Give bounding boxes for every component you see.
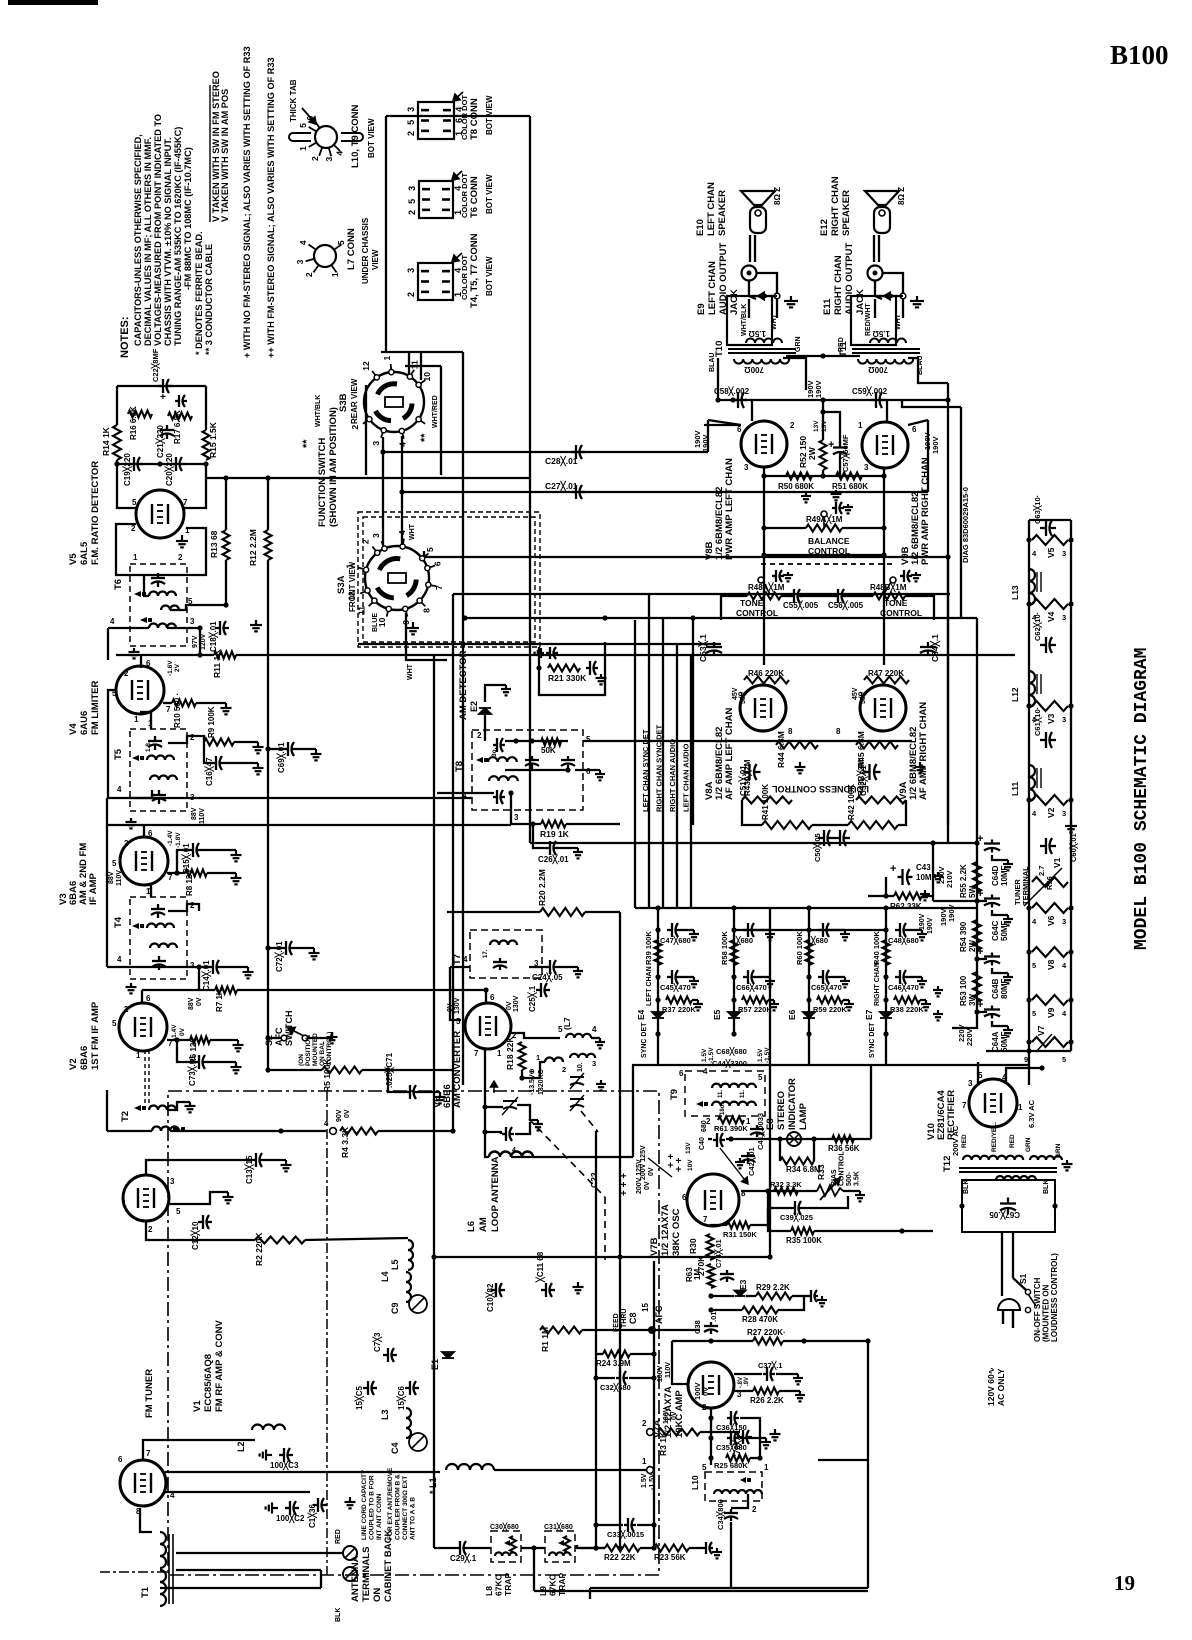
T9 pin5 bbox=[758, 1073, 763, 1082]
svg-text:-13.5V⊕: -13.5V⊕ bbox=[529, 1068, 536, 1095]
svg-text:C43: C43 bbox=[916, 863, 931, 872]
potentiometer R48A 1M tone L bbox=[747, 593, 781, 600]
svg-text:V7B: V7B bbox=[649, 1237, 660, 1256]
label V10 EZ81/6CA4 RECTIFIER bbox=[926, 1090, 957, 1140]
label GRN b bbox=[1055, 1143, 1062, 1158]
label R50 680K bbox=[778, 482, 814, 491]
svg-text:4: 4 bbox=[592, 1025, 597, 1034]
label T12 bbox=[942, 1156, 953, 1172]
svg-text:AFC: AFC bbox=[654, 1305, 664, 1324]
col d2 bbox=[883, 974, 888, 979]
svg-text:T4, T5, T7 CONN: T4, T5, T7 CONN bbox=[469, 233, 480, 308]
svg-text:C64A: C64A bbox=[991, 1031, 1000, 1052]
label 190V left bbox=[693, 430, 702, 448]
label R11 1K bbox=[212, 649, 222, 678]
svg-text:110V: 110V bbox=[116, 870, 123, 886]
label L7 bbox=[562, 1017, 572, 1030]
T6 secondary coil bbox=[161, 606, 179, 611]
svg-text:2: 2 bbox=[752, 1505, 757, 1514]
wire x708 bbox=[707, 420, 709, 452]
switch V9 wafer bbox=[1032, 995, 1068, 1005]
resistor R29 2.2K bbox=[756, 1293, 792, 1300]
label 100V 0V bbox=[693, 1382, 702, 1400]
wire y1460 bbox=[818, 1459, 868, 1461]
svg-text:C59╳.002: C59╳.002 bbox=[852, 386, 888, 397]
label C11 68 bbox=[535, 1251, 546, 1283]
resistor R50 680K bbox=[786, 473, 812, 480]
cap tone R bbox=[900, 570, 912, 582]
svg-text:-FM 88MC TO 108MC (IF-10.7MC): -FM 88MC TO 108MC (IF-10.7MC) bbox=[183, 147, 193, 290]
svg-text:6AL5: 6AL5 bbox=[79, 541, 90, 565]
svg-text:V TAKEN WITH SW IN AM POS: V TAKEN WITH SW IN AM POS bbox=[220, 89, 230, 222]
note + no fm-stereo bbox=[242, 46, 252, 358]
svg-text:1.5V: 1.5V bbox=[701, 1048, 708, 1062]
tube V3 6BA6 AM 2nd FM IF bbox=[120, 837, 168, 885]
trap L9 box bbox=[545, 1531, 575, 1562]
label 45V 50V L bbox=[732, 687, 739, 700]
bus y990 right bbox=[237, 989, 486, 991]
resistor R14 1K bbox=[113, 425, 121, 460]
label UNDER CHASSIS VIEW bbox=[361, 217, 370, 284]
wire V2 pin6 bbox=[141, 990, 143, 1003]
coil L10 box bbox=[705, 1472, 762, 1501]
svg-text:BOT VIEW: BOT VIEW bbox=[485, 174, 494, 214]
T7 cap bbox=[493, 958, 507, 970]
label L12 bbox=[1010, 687, 1020, 702]
svg-text:R12 2.2M: R12 2.2M bbox=[248, 529, 258, 566]
svg-text:C53╳.1: C53╳.1 bbox=[697, 634, 709, 662]
svg-text:2: 2 bbox=[190, 901, 195, 910]
svg-text:2: 2 bbox=[124, 669, 129, 678]
svg-text:BOT VIEW: BOT VIEW bbox=[367, 118, 376, 158]
core bbox=[728, 349, 796, 353]
svg-text:V8: V8 bbox=[1046, 959, 1056, 970]
svg-text:2: 2 bbox=[642, 1419, 647, 1428]
svg-text:C21╳220: C21╳220 bbox=[155, 425, 166, 458]
svg-text:12: 12 bbox=[361, 361, 371, 371]
svg-text:R23 56K: R23 56K bbox=[654, 1553, 686, 1562]
capacitor C24 .05 bbox=[545, 960, 559, 974]
wire R9 gnd bbox=[234, 741, 258, 743]
ground V2 grid bbox=[126, 983, 137, 993]
thick tab arrow bbox=[302, 108, 316, 124]
resistor R47 220K bbox=[864, 677, 909, 684]
j R23 bbox=[651, 1545, 656, 1550]
lg bbox=[927, 917, 934, 934]
resistor R25 680K bbox=[726, 1455, 750, 1462]
pin V9A 8 bbox=[836, 727, 841, 736]
junction R12 top bbox=[265, 475, 270, 480]
label C68 680 bbox=[716, 1046, 747, 1057]
transformer T7 box bbox=[470, 930, 542, 978]
gnd col2 bbox=[765, 977, 775, 987]
diode col bbox=[652, 1012, 664, 1018]
scan artifact top bar bbox=[8, 0, 98, 5]
svg-text:TRAP: TRAP bbox=[557, 1573, 567, 1596]
label 1820KC bbox=[538, 1069, 545, 1095]
gnd C42 bbox=[735, 1158, 745, 1168]
resistor R9 100K bbox=[204, 739, 234, 746]
svg-text:4: 4 bbox=[334, 151, 344, 156]
label L8 67KC TRAP bbox=[484, 1573, 513, 1596]
label -1.5V a bbox=[708, 1047, 715, 1063]
antenna terminal A bbox=[343, 1546, 357, 1560]
bottom bus step bbox=[589, 1588, 591, 1599]
svg-text:7: 7 bbox=[146, 1449, 151, 1458]
gnd R21 above bbox=[535, 648, 544, 658]
svg-text:5: 5 bbox=[188, 597, 193, 606]
svg-text:V4: V4 bbox=[1046, 611, 1056, 622]
wire R8 gnd bbox=[207, 872, 236, 874]
wire tone rail L bbox=[721, 596, 747, 620]
svg-text:FRONT VIEW: FRONT VIEW bbox=[348, 561, 357, 612]
capacitor C15 .01 bbox=[188, 843, 202, 857]
trap L8 res bbox=[510, 1536, 516, 1552]
svg-text:E10: E10 bbox=[695, 219, 706, 236]
svg-text:90V: 90V bbox=[336, 1109, 343, 1122]
ground T2 bbox=[185, 1102, 196, 1112]
label C24 .05 bbox=[532, 972, 563, 983]
T4 pin1 bbox=[148, 887, 153, 896]
label DIAG 83D60029A15-0 bbox=[961, 487, 970, 563]
cap balance bbox=[832, 502, 844, 514]
svg-text:R4 3.3K: R4 3.3K bbox=[340, 1126, 350, 1158]
junction y1131 bbox=[278, 1128, 283, 1133]
trimmer C4 bbox=[409, 1433, 427, 1451]
svg-text:R16 6.8K: R16 6.8K bbox=[129, 406, 138, 440]
svg-text:2W: 2W bbox=[807, 446, 817, 460]
svg-text:7: 7 bbox=[166, 705, 171, 714]
wire R29 right bbox=[792, 1295, 808, 1297]
gnd l1 bbox=[933, 986, 943, 996]
wire y1257 bbox=[434, 1256, 770, 1258]
pin V3 5 bbox=[112, 859, 117, 868]
svg-text:R55 2.2K: R55 2.2K bbox=[959, 864, 968, 898]
resistor R10 560 bbox=[172, 700, 196, 707]
svg-text:R54 390: R54 390 bbox=[959, 921, 968, 952]
svg-text:6BA6: 6BA6 bbox=[79, 1046, 90, 1070]
label R44 6.8M bbox=[776, 731, 786, 768]
svg-text:WHT: WHT bbox=[895, 313, 902, 330]
gnd ecap bbox=[1003, 973, 1013, 983]
svg-text:R29 2.2K: R29 2.2K bbox=[756, 1283, 790, 1292]
tube V7A 19KC amp bbox=[688, 1362, 734, 1408]
junction C14 bbox=[196, 964, 201, 969]
svg-text:BLK: BLK bbox=[963, 1180, 970, 1194]
junction S2 bbox=[265, 1035, 270, 1040]
wire x948 bbox=[947, 383, 949, 843]
svg-text:CONNECT 300Ω EXT: CONNECT 300Ω EXT bbox=[402, 1476, 409, 1540]
svg-text:R43A╳2M: R43A╳2M bbox=[742, 759, 753, 796]
ground C72 bbox=[309, 948, 320, 959]
svg-text:C16╳47: C16╳47 bbox=[204, 757, 215, 786]
wire net drop bbox=[205, 464, 207, 478]
svg-text:+: + bbox=[160, 392, 166, 403]
switch arrow bbox=[884, 292, 899, 299]
svg-text:C35╳680: C35╳680 bbox=[716, 1442, 747, 1453]
label V9 wafer bbox=[1046, 1007, 1056, 1018]
T12 core bbox=[959, 1168, 1057, 1172]
svg-text:+: + bbox=[977, 888, 983, 900]
svg-text:15: 15 bbox=[641, 1303, 650, 1312]
L10 pin2 bbox=[752, 1505, 757, 1514]
osc wire bbox=[540, 1062, 545, 1078]
label C5 15 bbox=[354, 1386, 365, 1410]
j C36 bbox=[708, 1415, 713, 1420]
trimmer C9 bbox=[409, 1295, 427, 1313]
svg-text:4: 4 bbox=[324, 1119, 329, 1128]
svg-text:C33╳.0015: C33╳.0015 bbox=[607, 1529, 644, 1540]
T8 pin3 bbox=[514, 813, 519, 822]
svg-text:3.5K: 3.5K bbox=[854, 1171, 861, 1186]
wire net bottom bbox=[117, 463, 206, 465]
gnd tone R bbox=[911, 572, 921, 581]
svg-text:COUPLER FROM B &: COUPLER FROM B & bbox=[395, 1474, 402, 1540]
svg-text:6AU6: 6AU6 bbox=[79, 711, 90, 735]
wire V1b k bbox=[165, 1491, 310, 1493]
label R14 1K bbox=[101, 426, 111, 456]
gnd col3 bbox=[844, 1000, 854, 1010]
L11 core bbox=[1037, 768, 1041, 788]
label ON-OFF SWITCH bbox=[1033, 1253, 1059, 1342]
capacitor C51 .01 bbox=[744, 764, 761, 780]
resistor col2 bbox=[666, 997, 692, 1004]
svg-text:3: 3 bbox=[1062, 613, 1066, 622]
junction R13 top bbox=[223, 475, 228, 480]
label BLK a bbox=[963, 1180, 970, 1194]
label VIEW bbox=[371, 249, 380, 270]
svg-text:RED/YEL.: RED/YEL. bbox=[991, 1122, 998, 1152]
pin V4 7 bbox=[166, 705, 171, 714]
tuner box divider bbox=[326, 1091, 328, 1575]
label V6 wafer bbox=[1046, 915, 1056, 926]
wire C57 top bbox=[823, 412, 840, 444]
jack sw wire bbox=[877, 295, 903, 297]
T6 pin2 bbox=[178, 553, 183, 562]
capacitor C26 .01 bbox=[545, 841, 559, 855]
resistor R12 2.2M bbox=[265, 530, 272, 560]
svg-text:R44 6.8M: R44 6.8M bbox=[776, 731, 786, 768]
resistor R15 1.5K bbox=[203, 430, 210, 460]
ground R10 bbox=[221, 703, 232, 714]
balance dashed bbox=[768, 527, 806, 529]
svg-text:2: 2 bbox=[131, 524, 136, 533]
wire BLAU left bbox=[717, 358, 719, 400]
svg-text:T8 CONN: T8 CONN bbox=[469, 98, 480, 140]
labels chan bundle bbox=[641, 724, 691, 812]
label R17 6.8K bbox=[173, 410, 182, 444]
gnd mid amp bbox=[831, 490, 842, 500]
svg-text:RIGHT CHAN AUDIO: RIGHT CHAN AUDIO bbox=[668, 739, 677, 812]
wire trap down bbox=[533, 1548, 535, 1591]
terminal 2 circle bbox=[647, 1429, 654, 1436]
dot e3 bbox=[974, 1009, 979, 1014]
L13 core bbox=[1037, 572, 1041, 592]
gnd col bbox=[765, 930, 775, 940]
ground C16 bbox=[253, 763, 264, 774]
j x654a bbox=[651, 1351, 656, 1356]
wire trap join bbox=[521, 1547, 545, 1549]
potentiometer R43A 2M bbox=[742, 797, 792, 804]
L7 pin5 bbox=[558, 1025, 563, 1034]
wire ecap stub1 bbox=[977, 900, 987, 902]
bus y798 bbox=[107, 797, 472, 799]
label V2 wafer bbox=[1046, 807, 1056, 818]
svg-text:4: 4 bbox=[117, 955, 122, 964]
svg-text:2: 2 bbox=[178, 553, 183, 562]
svg-text:7: 7 bbox=[962, 1101, 967, 1110]
pin V7B 7 bbox=[703, 1215, 708, 1224]
junction V6 top bbox=[483, 987, 488, 992]
wire x933 bbox=[932, 843, 934, 901]
svg-text:V1: V1 bbox=[192, 1400, 203, 1412]
capacitor C62 .10 bbox=[1040, 637, 1056, 653]
svg-text:CONTROL: CONTROL bbox=[736, 608, 778, 618]
note line cord bbox=[361, 1469, 383, 1540]
wire b+ left bbox=[933, 900, 977, 902]
capacitor C70 .01 bbox=[738, 1430, 752, 1444]
bus y400 bbox=[718, 399, 948, 401]
gnd col bbox=[840, 930, 850, 940]
wire C16 gnd bbox=[225, 762, 258, 764]
T8 dot2 bbox=[529, 738, 534, 743]
capacitor C55 .005 bbox=[790, 589, 802, 603]
wire C71 bbox=[388, 1070, 405, 1092]
svg-text:3: 3 bbox=[1062, 549, 1066, 558]
svg-text:2: 2 bbox=[702, 1403, 707, 1412]
svg-text:C57╳50MF: C57╳50MF bbox=[840, 434, 851, 472]
svg-text:RIGHT CHAN: RIGHT CHAN bbox=[833, 255, 844, 315]
svg-text:INDICATOR: INDICATOR bbox=[787, 1078, 798, 1130]
svg-text:1.5Ω: 1.5Ω bbox=[748, 329, 766, 338]
label R25 680K bbox=[714, 1461, 748, 1470]
ground C71 bbox=[435, 1092, 446, 1103]
plus bbox=[977, 999, 983, 1011]
label C41 .0033 bbox=[755, 1113, 766, 1150]
label C67 bbox=[989, 1209, 1020, 1220]
label 110V bbox=[199, 808, 206, 824]
label R23 56K bbox=[654, 1553, 686, 1562]
bus y618 bbox=[462, 617, 977, 619]
V2 grid dashed lead bbox=[145, 1050, 149, 1104]
svg-text:11: 11 bbox=[409, 360, 419, 369]
res label bbox=[720, 931, 729, 965]
svg-text:3W: 3W bbox=[968, 994, 977, 1006]
svg-text:190V: 190V bbox=[931, 436, 940, 454]
color dot arrow bbox=[452, 171, 462, 180]
label FEED THRU bbox=[613, 1313, 620, 1332]
lb bbox=[621, 1309, 628, 1328]
label R47 220K bbox=[868, 669, 904, 678]
trap L8 box bbox=[491, 1531, 521, 1562]
li bbox=[693, 1269, 702, 1280]
chan label bbox=[0, 0, 1, 1]
label FRONT VIEW bbox=[348, 561, 357, 612]
svg-text:10MF: 10MF bbox=[1000, 865, 1009, 886]
tuner rail right x1071 bbox=[1070, 520, 1072, 1051]
svg-text:-1.8V: -1.8V bbox=[175, 832, 182, 848]
osc trimmer1 bbox=[570, 1073, 584, 1089]
T name bbox=[838, 340, 849, 357]
capacitor C12 bbox=[198, 1215, 212, 1229]
resistor R19 1K bbox=[541, 821, 566, 828]
svg-text:4: 4 bbox=[1062, 1009, 1067, 1018]
svg-text:C12╳10: C12╳10 bbox=[190, 1221, 201, 1250]
svg-text:R20 2.2M: R20 2.2M bbox=[537, 869, 547, 906]
pin V7B 8 bbox=[741, 1189, 746, 1198]
switch V5 wafer bbox=[1032, 535, 1068, 545]
pin 3d bbox=[1062, 809, 1066, 818]
svg-text:0V: 0V bbox=[179, 1027, 186, 1036]
svg-text:C31╳680: C31╳680 bbox=[544, 1522, 573, 1531]
tube V6 6BE6 AM converter bbox=[465, 1003, 511, 1049]
resistor R30 270K bbox=[707, 1234, 714, 1260]
transformer T6 box bbox=[130, 564, 187, 646]
L10 pin5 bbox=[702, 1463, 707, 1472]
svg-text:3: 3 bbox=[406, 107, 416, 112]
svg-text:E9: E9 bbox=[696, 303, 707, 315]
svg-text:COLOR DOT: COLOR DOT bbox=[460, 173, 469, 218]
pin 4b bbox=[1032, 613, 1037, 622]
pin V2 5 bbox=[112, 1019, 117, 1028]
svg-text:2: 2 bbox=[477, 731, 482, 740]
wire col4 drop bbox=[885, 1034, 887, 1065]
label C23 bbox=[589, 1172, 599, 1188]
label WHT T10 bbox=[771, 313, 778, 330]
label REDYEL bbox=[991, 1122, 998, 1152]
label GRN a bbox=[1025, 1137, 1032, 1152]
wire R23 r bbox=[689, 1547, 703, 1549]
label -1.8V V3 bbox=[175, 832, 182, 848]
gnd l2 bbox=[933, 1010, 943, 1020]
label V1 wafer bbox=[1052, 857, 1062, 868]
svg-text:50K: 50K bbox=[541, 746, 556, 755]
label V3 wafer bbox=[1046, 713, 1056, 724]
svg-text:T7: T7 bbox=[452, 954, 463, 965]
j C38 bbox=[708, 1338, 713, 1343]
wire tone rail R bbox=[905, 596, 934, 620]
wire C69 left bbox=[268, 748, 283, 750]
tone dashed bbox=[761, 563, 893, 565]
svg-text:WHT/RED: WHT/RED bbox=[432, 395, 439, 428]
pin V1a 2 bbox=[148, 1225, 153, 1234]
gnd T12 bbox=[1062, 1160, 1073, 1170]
osc pin3 bbox=[592, 1059, 596, 1068]
bus y1139b bbox=[726, 1138, 871, 1140]
j x620 bbox=[617, 1254, 622, 1259]
fil box bbox=[962, 1180, 1055, 1232]
jack right down wire bbox=[902, 299, 904, 318]
pin 5b bbox=[1032, 1009, 1036, 1018]
coil L13 bbox=[1029, 569, 1035, 605]
connector L7 CONN bbox=[295, 240, 346, 277]
capacitor C39 .025 bbox=[790, 1201, 804, 1215]
wire V6 pin2 bbox=[511, 1033, 560, 1038]
wire y596 mid3 bbox=[844, 595, 873, 597]
label 88V V3 bbox=[108, 871, 115, 884]
col d2 bbox=[655, 974, 660, 979]
wire E10 leads bbox=[749, 235, 751, 262]
contact circle bbox=[900, 293, 906, 299]
T8 arrows bbox=[476, 757, 488, 763]
gnd C1 bbox=[345, 1497, 356, 1508]
label V5 6AL5 FM RATIO DETECTOR bbox=[68, 461, 101, 565]
rail dot L bbox=[1026, 949, 1031, 954]
svg-text:-1.6V: -1.6V bbox=[167, 660, 174, 676]
pin V4 2 bbox=[124, 669, 129, 678]
svg-text:0V: 0V bbox=[506, 1001, 513, 1010]
resistor R18 22K bbox=[519, 1042, 526, 1070]
